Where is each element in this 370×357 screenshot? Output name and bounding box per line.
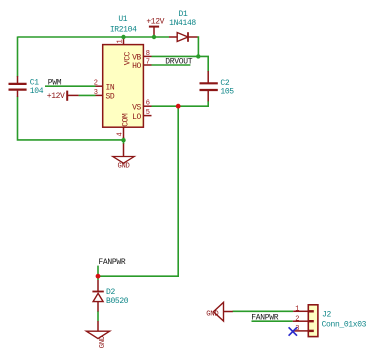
svg-text:FANPWR: FANPWR [98,258,126,267]
svg-text:5: 5 [146,109,150,117]
svg-text:U1: U1 [118,15,127,24]
wire pin 6 to C2 bottom [152,101,209,106]
op-amp U1 body (IR2104 driver IC) [103,45,144,128]
svg-text:IN: IN [106,83,115,92]
ground (below D2) [97,321,99,331]
svg-text:104: 104 [30,87,44,96]
svg-text:105: 105 [220,88,234,97]
junction at +12V / top wire [152,35,156,39]
svg-text:PWM: PWM [48,78,62,87]
pin 7 HO [143,64,151,66]
svg-text:DRVOUT: DRVOUT [165,58,193,67]
power symbol +12V (top) [153,27,155,37]
junction at COM / C1 loop [121,138,125,142]
svg-text:1: 1 [295,306,299,314]
svg-text:J2: J2 [322,311,331,320]
svg-text:IR2104: IR2104 [110,26,137,35]
wire left vertical down to C1 [17,37,19,77]
svg-text:GND: GND [206,311,218,319]
J2 pin 2 [293,320,309,322]
junction at FANPWR / D2 (red) [96,274,101,279]
pin 3 SD [96,94,103,96]
capacitor C2 [207,71,209,83]
pin 2 IN [96,85,103,87]
wire DRVOUT from pin 7 [152,64,191,66]
svg-text:D1: D1 [179,10,188,19]
wire D2 anode to GND [97,311,99,321]
power symbol +12V (at SD pin) [66,91,68,101]
svg-text:GND: GND [99,336,107,348]
wire top horizontal from C1 loop to D1 [18,36,170,38]
svg-text:6: 6 [146,100,150,108]
svg-text:LO: LO [132,113,141,122]
svg-text:1N4148: 1N4148 [169,19,196,28]
wire FANPWR junction to D2 [97,266,99,280]
svg-text:HO: HO [132,62,141,71]
pin 6 VS [143,105,151,107]
diode D1 1N4148 [169,36,177,38]
diode D2 B0520 [97,280,99,291]
svg-text:1: 1 [116,39,124,43]
svg-text:GND: GND [117,162,129,170]
wire VS junction down to FANPWR [98,106,178,276]
svg-text:2: 2 [94,80,98,88]
pin 8 VB [143,55,151,57]
pin 5 LO [143,115,151,117]
svg-text:8: 8 [146,50,150,58]
wire PWM to pin 2 [45,85,96,87]
J2 pin 3 [293,330,309,332]
wire +12V to pin 3 [79,94,96,96]
svg-text:+12V: +12V [146,17,164,26]
wire pin 8 to C2 top [152,56,209,71]
junction at pin 1 / top wire [121,35,125,39]
wire GND to J2 pin 1 [233,310,294,312]
wire D1 cathode down to VB net [197,37,198,56]
svg-text:2: 2 [295,316,299,324]
ground (at J2 pin 1, rotated) [224,311,233,313]
J2 pin 1 [293,310,308,312]
svg-text:+12V: +12V [47,92,65,101]
ground (below U1 COM) [123,144,125,157]
svg-text:B0520: B0520 [106,297,129,306]
svg-text:FANPWR: FANPWR [251,314,279,323]
connector J2 body [308,305,318,337]
wire C1 bottom loop to COM junction [18,97,124,140]
wire FANPWR to J2 pin 2 [252,320,293,322]
svg-text:4: 4 [116,132,124,136]
capacitor C1 [17,76,19,83]
svg-text:7: 7 [146,58,150,66]
svg-text:SD: SD [106,93,115,102]
junction at VS (red) [176,104,181,109]
svg-text:COM: COM [122,113,131,127]
svg-text:VS: VS [132,103,141,112]
pin 4 COM [123,127,125,138]
no-connect X at J2 pin 3 [289,327,297,335]
pin 1 VCC [123,37,125,45]
wire COM to GND [123,137,125,144]
junction at VB / D1 [196,54,200,58]
svg-text:Conn_01x03: Conn_01x03 [322,321,367,330]
svg-text:3: 3 [94,89,98,97]
